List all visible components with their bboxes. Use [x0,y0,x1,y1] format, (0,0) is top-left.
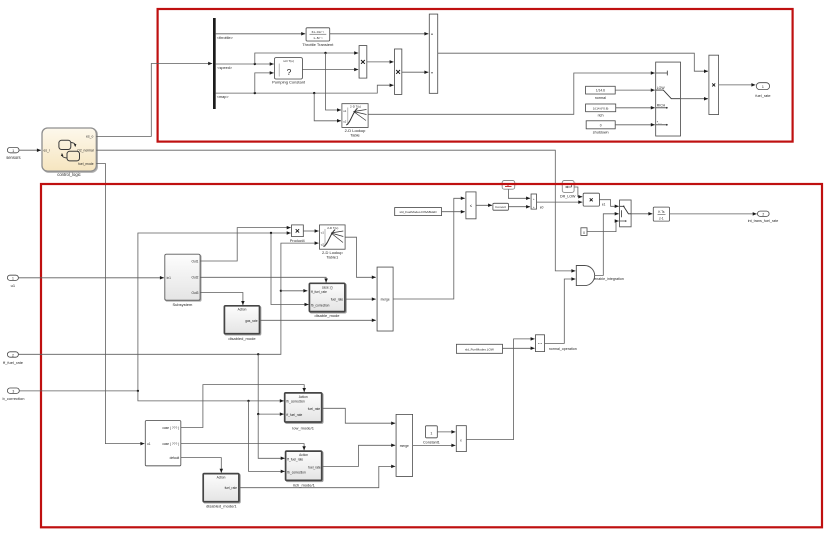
wire disabled_mode out to merge [260,319,376,321]
input port u1 [7,275,18,288]
block Product fuel rate [709,55,719,114]
wire rich_mode out to merge2 [322,445,396,466]
svg-text:u1: u1 [321,230,325,234]
svg-text:disable_mode: disable_mode [315,313,341,318]
svg-text:e0: e0 [540,205,544,209]
svg-text:es_i: es_i [44,149,50,153]
svg-text:u2: u2 [343,119,347,123]
wire integrator out to port [670,213,757,215]
svg-text:<map>: <map> [217,95,230,99]
svg-text:K Ts: K Ts [658,210,665,214]
svg-text:1/(14.6*0.8): 1/(14.6*0.8) [593,106,609,110]
svg-text:sld_FuelModes.LOW: sld_FuelModes.LOW [465,347,494,351]
wire Product4 out to Table1 [303,230,318,232]
wire b_correction branch down to low/rich fb [138,391,284,401]
wire b_correction branch to disable_mode fb [271,233,309,305]
constant rich 1/(14.6*0.8) [586,104,616,117]
wire branch to 2-D lookup u1 [326,53,342,110]
constant sld_FuelModes.DISABLED [395,208,442,216]
svg-text:case ( ??? ): case ( ??? ) [162,426,179,430]
svg-text:default: default [170,456,180,460]
wire default to disabled_mode1 action [181,458,222,473]
svg-text:u1: u1 [343,109,347,113]
svg-text:sensors: sensors [6,155,20,160]
svg-text:Action: Action [217,476,226,480]
svg-text:low_mode/1: low_mode/1 [292,426,314,431]
svg-text:fuel_rate: fuel_rate [755,93,770,98]
wire merge2 out to sum2 [413,444,456,446]
svg-text:Pumping Constant: Pumping Constant [272,80,306,85]
svg-text:fuel_rate: fuel_rate [308,465,321,469]
svg-text:+: + [533,197,535,201]
svg-text:sld_FuelModes.DISABLED: sld_FuelModes.DISABLED [400,210,438,214]
svg-text:Out2: Out2 [191,276,198,280]
svg-text:normal: normal [595,96,606,100]
svg-text:1: 1 [430,432,432,436]
svg-text:fuel_mode: fuel_mode [78,162,94,166]
output port fuel_rate [755,83,770,98]
svg-text:z-1: z-1 [659,216,664,220]
svg-text:DR_LOW: DR_LOW [560,195,576,199]
wire sensors to control_logic [19,149,41,151]
wire rich to switch [616,107,655,109]
wire data store read down to sum [508,189,530,198]
wire low_mode out to merge2 [322,408,396,423]
block Product (speed x pumping) [359,46,367,79]
block Subsystem [165,254,200,307]
wire product e1 out to switch [599,200,618,207]
svg-text:3: 3 [12,390,14,394]
svg-text:ff_fuel_rate: ff_fuel_rate [3,360,24,365]
svg-text:fuel_rate: fuel_rate [308,407,321,411]
constant sld_FuelModes.LOW [456,344,502,353]
wire DR_LOW out to product [574,187,582,197]
wire lte out to Convert [476,204,492,206]
mux airflow [429,14,437,93]
svg-text:Throttle Transient: Throttle Transient [302,42,334,47]
block equals normal_operation [536,335,577,352]
svg-text:Table: Table [350,133,360,138]
svg-text:Action: Action [299,453,308,457]
wire case2 to rich_mode action [181,444,304,451]
wire disabled_mode1 out to merge2 [239,466,395,487]
wire speed branch to Product [255,53,358,64]
wire disable_mode out to merge [345,298,376,300]
block 2-D Lookup Table [342,104,368,138]
wire sum2 out up to equals [466,339,534,440]
svg-text:n-D T(u): n-D T(u) [283,59,294,63]
svg-text:1: 1 [12,149,14,153]
block sum e0 [531,194,536,209]
input port b_correction [2,388,24,401]
block Convert [493,203,509,210]
wire ff branch down to low/rich modes [258,354,284,414]
svg-text:control_logic: control_logic [57,172,81,177]
svg-text:1: 1 [762,85,764,89]
svg-text:Action: Action [238,308,247,312]
wire shutdown to switch [615,124,655,126]
wire Out3 to disabled_mode action [200,293,243,306]
wire product2 out to mux [402,71,429,73]
block Product4 [290,225,305,243]
svg-text:e1: e1 [602,203,606,207]
data store read DR_LOW (red highlighted) [560,181,576,199]
svg-text:0: 0 [600,124,602,128]
wire O2_normal to enable_integration AND gate [96,150,575,271]
svg-text:Product4: Product4 [290,239,305,243]
block disable_mode [309,283,345,318]
constant shutdown 0 [586,121,615,135]
svg-text:gas_rate: gas_rate [245,319,258,323]
wire sum e0 out to product [537,201,583,203]
block rich_mode action [286,451,322,487]
svg-text:fb_correction: fb_correction [287,471,306,475]
wire lookup out to multiport switch control [368,73,655,114]
constant normal 1/14.6 [586,86,616,100]
svg-text:rich: rich [598,113,604,117]
svg-text:O2_normal: O2_normal [77,148,94,152]
input port ff_fuel_rate [3,352,24,365]
svg-text:Subsystem: Subsystem [173,302,193,307]
wire case1 to low_mode action [181,385,304,428]
svg-text:fb_correction: fb_correction [286,400,305,404]
svg-text:2: 2 [12,353,14,357]
subsystem frame: fuel_calc (bottom red highlight box) [41,184,822,527]
wire u1 to Subsystem [18,277,164,279]
svg-text:Out3: Out3 [191,291,198,295]
gate AND enable_integration [576,266,624,286]
svg-text:ff_fuel_rate: ff_fuel_rate [287,458,303,462]
svg-text:ff_fuel_rate: ff_fuel_rate [286,413,302,417]
svg-text:rich_mode/1: rich_mode/1 [293,482,316,487]
constant 0 for switch [581,228,587,236]
block switch integrator enable [620,200,632,227]
wire Out2 to disable_mode action [200,277,326,282]
wire speed [216,63,274,65]
output port int_trans_fuel_rate [748,211,779,223]
svg-text:Table1: Table1 [326,255,339,260]
block merge [377,267,393,331]
wire DISABLED to relational [442,211,465,213]
wire fuel_mode to case block [96,164,144,444]
block discrete integrator K Ts/(z-1) [653,207,669,221]
svg-text:disabled_mode/1: disabled_mode/1 [206,504,237,509]
svg-text:fuel_rate: fuel_rate [331,298,344,302]
svg-text:shutdown: shutdown [593,131,609,135]
svg-text:b_correction: b_correction [2,396,24,401]
block low_mode action [285,393,322,431]
block 2-D Lookup Table1 [320,225,346,260]
svg-text:merge: merge [400,444,409,448]
svg-text:es_o: es_o [86,135,93,139]
svg-text:LOW: LOW [657,86,666,90]
svg-text:x: x [460,438,462,442]
block disabled_mode1 action [203,474,239,509]
svg-text:Convert: Convert [495,205,506,209]
svg-text:int_trans_fuel_rate: int_trans_fuel_rate [748,219,779,223]
subsystem frame: airflow_calc (top red highlight box) [158,9,793,142]
block sum2 [456,426,466,452]
svg-text:enable_integration: enable_integration [594,277,624,281]
svg-text:in1: in1 [167,276,171,280]
svg-text:Action: Action [299,395,308,399]
wire to fuel_rate port [719,84,756,86]
wire pumping constant out [302,69,358,71]
wire product1 out [367,61,394,63]
svg-text:*,...: *,... [657,120,662,124]
svg-text:RICH: RICH [657,103,666,107]
wire Out1 to Product4 [200,228,291,261]
bus selector bar [213,18,216,109]
block Product2 (x map) [395,49,402,94]
chart control_logic [42,128,96,177]
multiport switch fuel mode selector [656,62,681,136]
svg-text:u1: u1 [147,442,151,446]
svg-text:case: {}: case: {} [322,285,333,289]
wire throttle [216,33,306,35]
wire switch out to product [681,98,709,100]
input port sensors [6,147,20,160]
block Pumping Constant [272,58,306,85]
block product e1 [583,193,599,206]
svg-text:<speed>: <speed> [217,66,233,70]
svg-text:Constant1: Constant1 [423,440,440,444]
wire ff_fuel_rate main [18,243,318,354]
wire ff branch to disable_mode [281,290,308,292]
wire LOW to equals [503,347,535,349]
svg-text:<throttle>: <throttle> [217,36,234,40]
svg-text:2: 2 [762,213,764,217]
wire Table1 out to merge [345,237,376,277]
wire map [216,85,394,93]
wire throttle transient out to mux [330,33,429,35]
block Throttle Transient [302,28,334,47]
svg-text:?: ? [287,67,292,77]
wire b_correction up to Product4 [19,233,290,391]
svg-text:fb_correction: fb_correction [311,303,330,307]
svg-text:1-.8z⁻¹: 1-.8z⁻¹ [313,36,322,40]
svg-text:u2: u2 [321,242,325,246]
svg-text:2-D T(u): 2-D T(u) [327,226,338,230]
wire es_o to bus selector [96,64,212,137]
wire normal to switch [615,89,655,91]
wire AND out up to switch [595,214,619,276]
wire Convert out to sum [508,206,530,208]
svg-text:normal_operation: normal_operation [549,347,577,351]
block relational lte [466,192,476,219]
wire merge out to relational [393,198,465,299]
svg-text:2-D T(u): 2-D T(u) [350,105,361,109]
svg-text:disabled_mode: disabled_mode [228,336,256,341]
wire 0 to switch [587,221,619,232]
svg-text:ff_fuel_rate: ff_fuel_rate [311,290,327,294]
block merge2 [396,414,413,476]
wire map branch to 2-D lookup u2 [314,93,341,121]
wire Constant1 to sum2 [437,431,455,433]
svg-text:Out1: Out1 [191,259,198,263]
wire switch out to discrete integrator [631,213,652,215]
wire map branch to pumping constant [255,73,274,93]
block disabled_mode action [224,306,259,341]
data store read (red highlighted) [502,181,515,190]
constant Constant1 [423,426,440,445]
svg-text:merge: merge [381,297,390,301]
block case switch [145,421,181,466]
svg-text:= =: = = [538,342,543,346]
wire equals out up to AND [545,279,576,343]
svg-text:u1: u1 [11,283,16,288]
wire mux out to product fuel [438,53,708,71]
svg-text:case ( ??? ): case ( ??? ) [162,442,179,446]
svg-text:61-.01z⁻¹: 61-.01z⁻¹ [312,30,325,34]
svg-text:fuel_rate: fuel_rate [225,486,238,490]
svg-text:+: + [533,205,535,209]
svg-text:0: 0 [583,231,585,235]
svg-text:1/14.6: 1/14.6 [596,89,605,93]
svg-text:1: 1 [12,277,14,281]
